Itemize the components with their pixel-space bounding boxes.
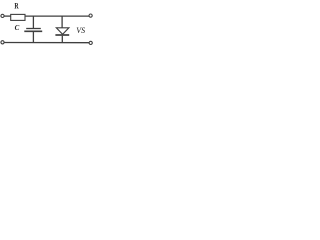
svg-text:C: C [15,24,20,32]
svg-text:R: R [14,1,19,11]
svg-text:VS: VS [76,26,85,35]
